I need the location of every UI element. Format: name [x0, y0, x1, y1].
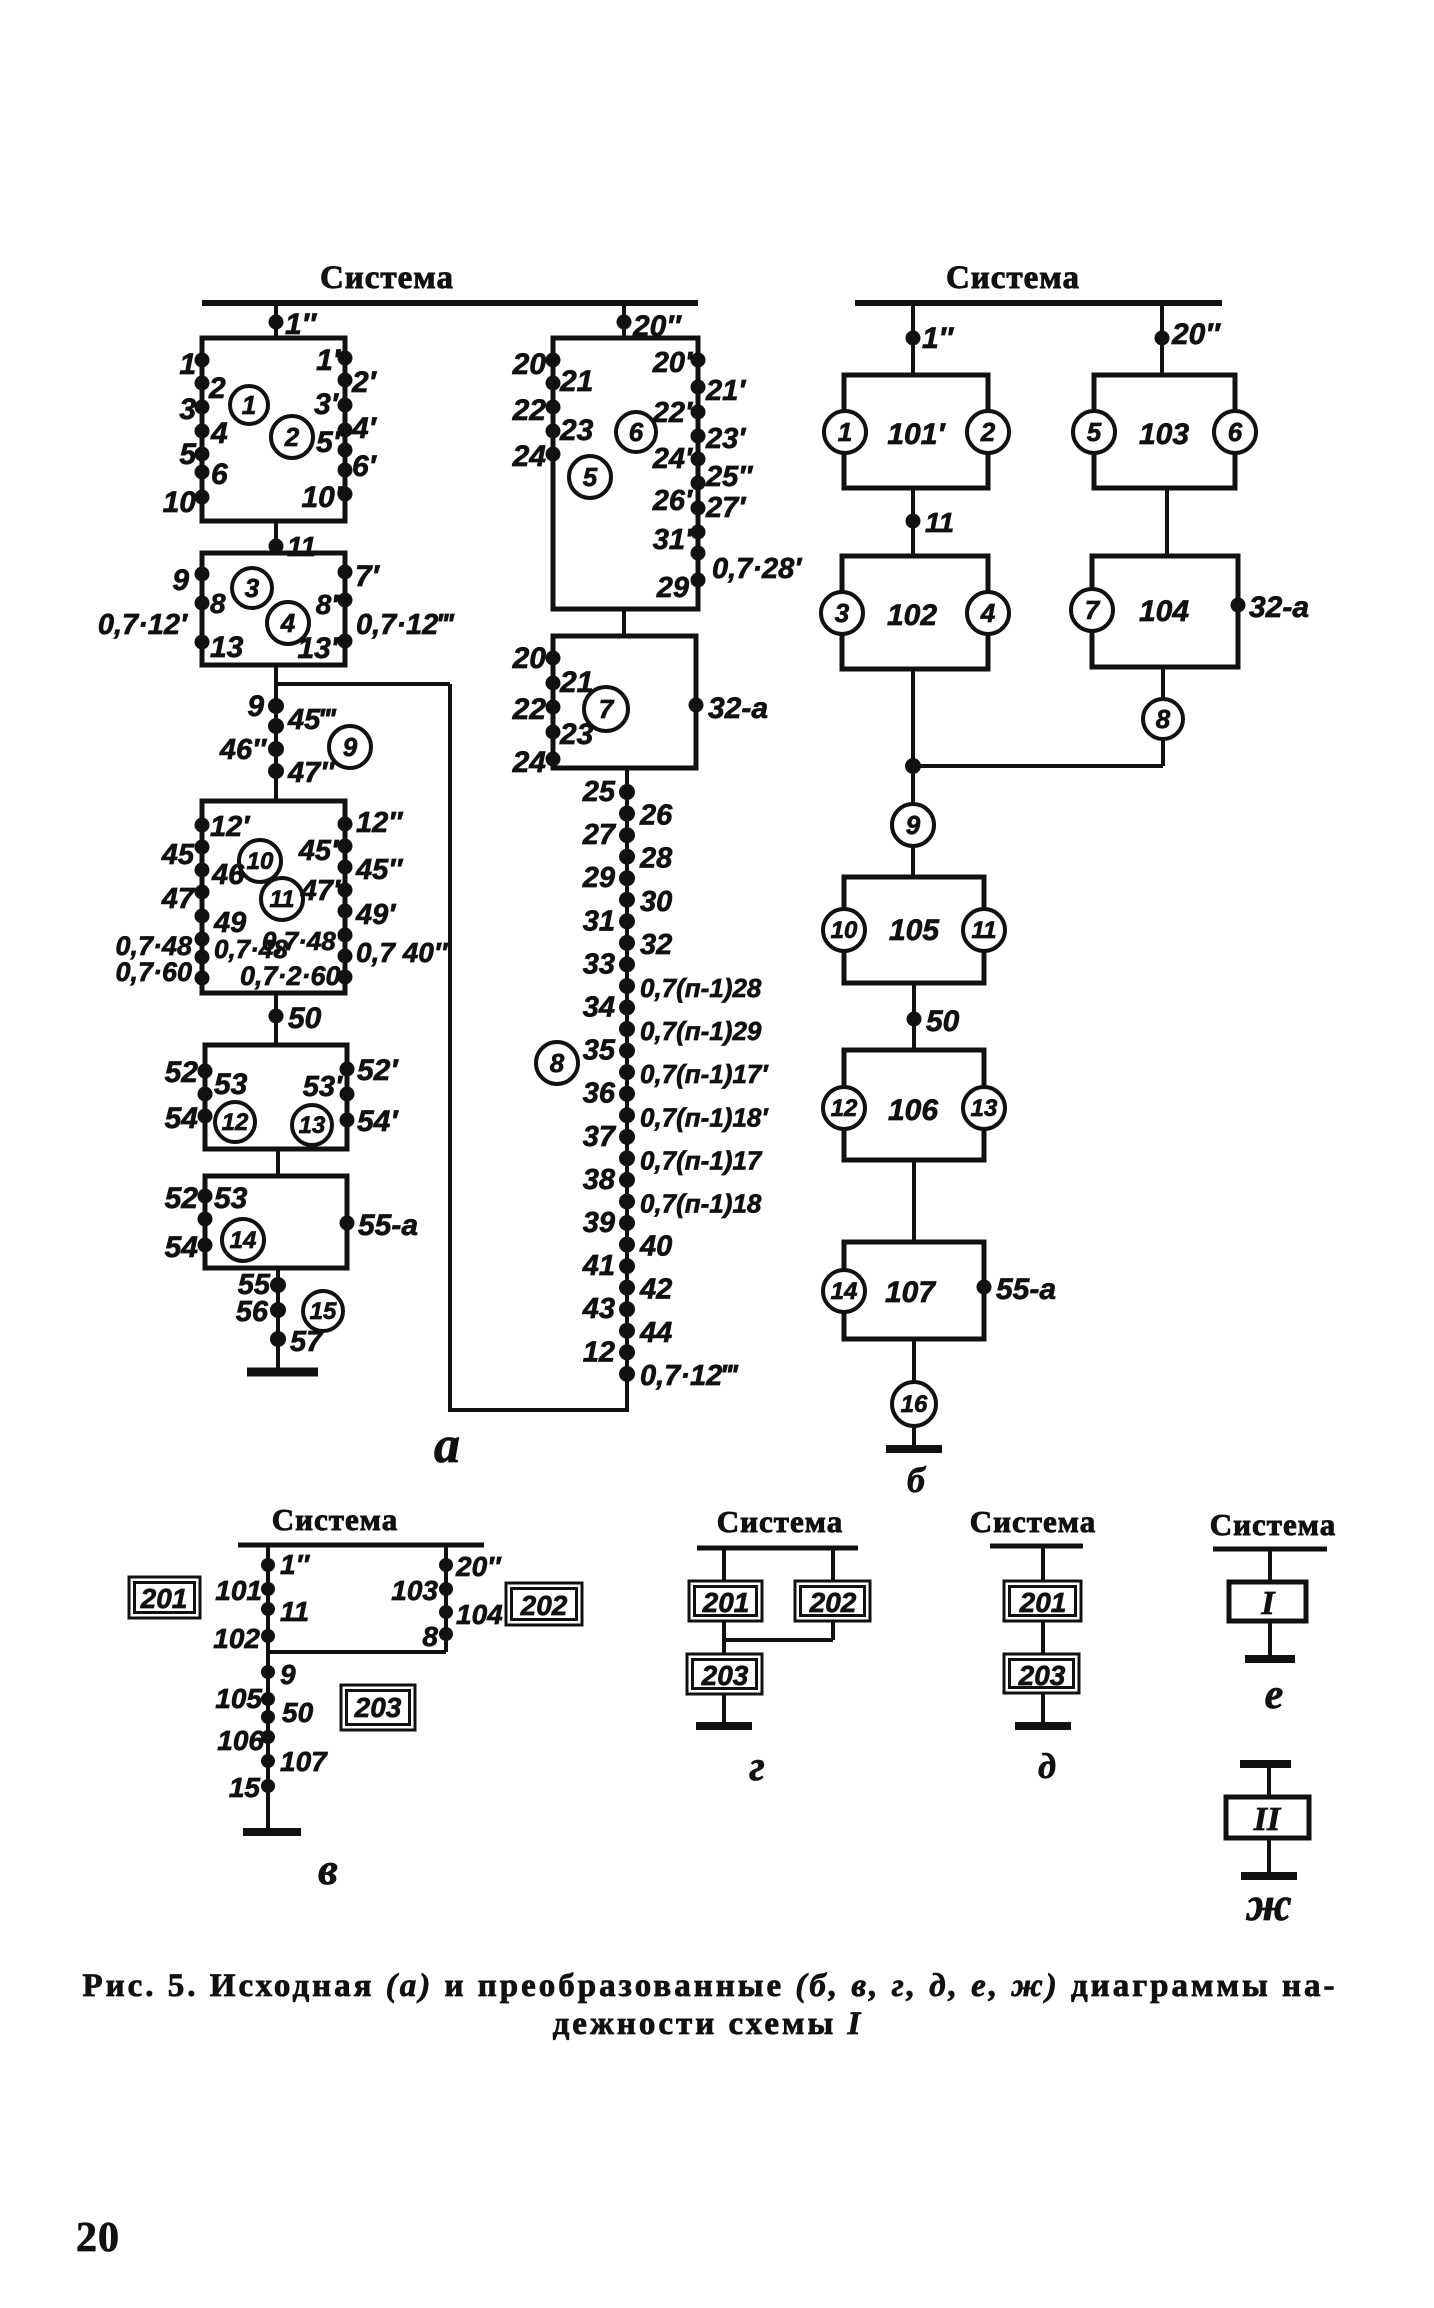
nodes on left edge of box 1-2: [195, 353, 210, 368]
element circle 7: [584, 687, 628, 731]
svg-text:46″: 46″: [219, 734, 267, 766]
element circle 14 on box 107: [823, 1270, 865, 1312]
svg-text:Система: Система: [946, 260, 1080, 296]
box 107: [844, 1242, 984, 1339]
ground of diagram g: [722, 1694, 726, 1726]
svg-text:5: 5: [1087, 417, 1102, 447]
svg-text:21: 21: [559, 365, 593, 398]
svg-text:0,7(п-1)18: 0,7(п-1)18: [640, 1188, 762, 1218]
svg-text:40: 40: [639, 1231, 672, 1263]
svg-text:12: 12: [583, 1336, 615, 1368]
svg-text:в: в: [318, 1845, 338, 1894]
svg-text:6: 6: [1228, 417, 1243, 447]
box 202 of diagram v: [506, 1583, 582, 1625]
svg-text:29′: 29′: [656, 572, 697, 604]
svg-text:104: 104: [456, 1599, 503, 1630]
svg-text:8′: 8′: [316, 589, 340, 620]
busbar: system bus of diagram b: [855, 300, 1222, 306]
element circle 2 on box 101: [967, 411, 1009, 453]
box 203 of diagram v: [341, 1685, 415, 1730]
svg-text:13: 13: [210, 631, 244, 664]
svg-text:0,7·12‴: 0,7·12‴: [640, 1360, 739, 1392]
svg-text:I: I: [1260, 1585, 1276, 1622]
box 106: [844, 1050, 984, 1160]
svg-text:4: 4: [280, 608, 296, 638]
svg-text:0,7·48′: 0,7·48′: [262, 926, 344, 956]
busbar of diagram v: [238, 1543, 484, 1548]
svg-text:52: 52: [165, 1182, 199, 1215]
element circle 5: [569, 456, 611, 498]
element circle 11 on box 105: [963, 909, 1005, 951]
nodes on left edge of box 7: [546, 651, 561, 666]
box containing elements 10 and 11: [202, 801, 345, 993]
wire between box 5-6 and box 7: [622, 609, 626, 636]
wire below box 104 to element 8: [1161, 667, 1165, 699]
svg-text:202: 202: [520, 1590, 568, 1621]
svg-text:1: 1: [838, 417, 852, 447]
svg-text:39: 39: [583, 1207, 615, 1239]
svg-text:31: 31: [583, 905, 615, 937]
element circle 12 on box 106: [823, 1087, 865, 1129]
nodes on left edge of box 10-11: [195, 818, 210, 833]
wire between boxes of d: [1041, 1621, 1045, 1654]
svg-text:7: 7: [1085, 595, 1101, 625]
svg-text:105: 105: [889, 914, 940, 947]
busbar: system bus of diagram a: [202, 300, 698, 306]
node 32-a on right edge of box 7: [689, 698, 704, 713]
svg-text:Система: Система: [320, 260, 454, 296]
svg-text:52′: 52′: [357, 1054, 399, 1087]
svg-text:104: 104: [1139, 595, 1189, 628]
wire drop to box 202 of g: [831, 1548, 835, 1581]
svg-text:23′: 23′: [705, 423, 746, 455]
svg-text:53′: 53′: [303, 1071, 343, 1103]
box 102: [842, 556, 988, 669]
nodes on right edge of box 3-4: [338, 565, 353, 580]
nodes on right edge of box 10-11: [338, 817, 353, 832]
node 20'' of diagram b: [1155, 331, 1170, 346]
svg-text:0,7·2·60: 0,7·2·60: [240, 961, 341, 991]
node 50 of diagram b: [907, 1012, 922, 1027]
svg-text:5: 5: [583, 462, 598, 492]
svg-text:13: 13: [971, 1095, 998, 1122]
node 11 of diagram b: [906, 514, 921, 529]
svg-text:4′: 4′: [351, 412, 378, 445]
box containing elements 5 and 6: [553, 338, 698, 609]
element circle 7 on box 104: [1071, 589, 1113, 631]
ground of diagram zh: [1267, 1838, 1271, 1876]
top bar of diagram zh: [1240, 1760, 1291, 1768]
nodes on left edge of box 5-6: [546, 353, 561, 368]
node 1'' on drop wire: [269, 315, 284, 330]
svg-text:56: 56: [236, 1296, 269, 1328]
svg-text:20: 20: [512, 348, 547, 381]
wire between box 10-11 and box 12-13: [274, 993, 278, 1045]
svg-text:41: 41: [582, 1250, 615, 1282]
wire: drop to box 103: [1160, 303, 1164, 375]
box II of diagram zh: [1226, 1797, 1309, 1838]
svg-text:10′: 10′: [301, 481, 343, 514]
svg-text:54′: 54′: [357, 1105, 399, 1138]
svg-text:12′: 12′: [210, 811, 250, 843]
busbar of diagram d: [990, 1544, 1083, 1549]
nodes on right edge of box 5-6: [691, 353, 706, 368]
svg-text:27: 27: [582, 819, 617, 851]
nodes on right edge of box 12-13: [340, 1062, 355, 1077]
svg-text:49′: 49′: [355, 899, 396, 931]
svg-text:11: 11: [280, 1596, 309, 1627]
wire between box 101 and box 102: [911, 488, 915, 556]
svg-text:32-a: 32-a: [708, 692, 768, 725]
node 50: [269, 1009, 284, 1024]
element circle 8 of diagram b: [1143, 699, 1183, 739]
svg-text:28: 28: [639, 843, 673, 875]
svg-text:106: 106: [888, 1094, 938, 1127]
svg-text:6: 6: [211, 458, 228, 491]
svg-text:43: 43: [582, 1293, 615, 1325]
box 203 of diagram d: [1004, 1654, 1079, 1693]
box 103: [1094, 375, 1235, 488]
svg-text:203: 203: [354, 1692, 402, 1723]
wire below box 202 joining left branch: [831, 1621, 835, 1640]
svg-text:11: 11: [270, 886, 295, 913]
element circle 6: [616, 412, 656, 452]
svg-text:12: 12: [831, 1095, 858, 1122]
svg-text:102: 102: [887, 599, 937, 632]
nodes on right chain: 20'',103,104,8: [439, 1558, 453, 1572]
svg-text:50: 50: [926, 1005, 960, 1038]
svg-text:4: 4: [980, 598, 996, 628]
svg-text:29: 29: [582, 862, 615, 894]
svg-text:53: 53: [214, 1182, 248, 1215]
nodes on right edge of box 1-2: [338, 351, 353, 366]
wire between box 106 and box 107: [912, 1160, 916, 1242]
wire: drop from bus to box 5-6: [622, 303, 626, 338]
svg-text:20″: 20″: [1171, 318, 1221, 351]
wire drop to box 201 of d: [1041, 1546, 1045, 1581]
ground of diagram v: [243, 1828, 301, 1836]
svg-text:16: 16: [901, 1391, 928, 1418]
svg-text:203: 203: [701, 1660, 749, 1691]
svg-text:203: 203: [1018, 1660, 1066, 1691]
svg-text:8: 8: [1156, 704, 1171, 734]
element circle 13: [292, 1105, 332, 1145]
svg-text:32-a: 32-a: [1249, 591, 1309, 624]
element circle 2: [271, 416, 313, 458]
svg-text:30: 30: [640, 886, 672, 918]
svg-text:107: 107: [280, 1746, 328, 1777]
svg-text:6: 6: [629, 417, 644, 447]
svg-text:22: 22: [512, 394, 547, 427]
svg-text:5: 5: [179, 438, 197, 471]
box 201 of diagram d: [1004, 1581, 1081, 1621]
svg-text:25″: 25″: [705, 461, 753, 493]
element circle 16: [892, 1382, 936, 1426]
svg-text:14: 14: [230, 1227, 257, 1254]
svg-text:3: 3: [835, 598, 850, 628]
box containing elements 12 and 13: [205, 1045, 347, 1149]
busbar of diagram g: [697, 1546, 858, 1551]
svg-text:36: 36: [583, 1078, 616, 1110]
nodes 9,45''',46'',47'' on wire below box 3-4: [268, 698, 284, 714]
svg-text:5′: 5′: [316, 426, 342, 459]
svg-text:Система: Система: [272, 1502, 398, 1537]
junction wire joining branches: [913, 764, 1163, 768]
svg-text:8: 8: [550, 1048, 565, 1078]
svg-text:2: 2: [980, 417, 996, 447]
element circle 3 on box 102: [821, 592, 863, 634]
svg-text:9: 9: [906, 810, 921, 840]
svg-text:3: 3: [179, 393, 196, 426]
svg-text:55-a: 55-a: [358, 1209, 418, 1242]
svg-text:12: 12: [222, 1109, 249, 1136]
svg-text:10: 10: [163, 486, 197, 519]
element circle 6 on box 103: [1214, 411, 1256, 453]
svg-text:20′: 20′: [652, 347, 693, 379]
svg-text:22′: 22′: [652, 397, 693, 429]
svg-text:9: 9: [247, 690, 264, 723]
nodes and labels of chain 8: [619, 784, 635, 800]
svg-text:54: 54: [165, 1102, 199, 1135]
svg-text:35: 35: [583, 1035, 616, 1067]
box I of diagram e: [1229, 1582, 1306, 1621]
svg-text:25: 25: [582, 776, 616, 808]
element circle 10 on box 105: [823, 909, 865, 951]
wire: drop from bus to box 1-2: [274, 303, 278, 338]
svg-text:11: 11: [972, 917, 997, 944]
svg-text:37: 37: [583, 1121, 617, 1153]
svg-text:11: 11: [287, 531, 316, 562]
svg-text:6′: 6′: [352, 450, 378, 483]
svg-text:0,7(п-1)18′: 0,7(п-1)18′: [640, 1102, 769, 1132]
svg-text:20: 20: [76, 2215, 120, 2261]
svg-text:31′: 31′: [653, 524, 693, 556]
svg-text:23: 23: [559, 718, 594, 751]
junction node: [905, 758, 921, 774]
box 202 of diagram g: [795, 1581, 870, 1621]
wire drop to box 201 of g: [722, 1548, 726, 1581]
svg-text:0,7·28′: 0,7·28′: [712, 553, 802, 585]
wire between box 105 and box 106: [912, 983, 916, 1050]
svg-text:50: 50: [288, 1002, 322, 1035]
wire between box 1-2 and box 3-4: [274, 521, 278, 553]
svg-text:9: 9: [172, 564, 189, 597]
ground of diagram d: [1041, 1693, 1045, 1726]
svg-text:б: б: [907, 1460, 927, 1500]
svg-text:Рис. 5. Исходная (а) и преобра: Рис. 5. Исходная (а) и преобразованные (…: [82, 1968, 1337, 2004]
chain of element 8: vertical wire: [625, 768, 629, 1412]
element circle 8: [536, 1042, 578, 1084]
ground of diagram e: [1268, 1621, 1272, 1659]
svg-text:0,7·12‴: 0,7·12‴: [356, 609, 455, 641]
svg-text:3′: 3′: [314, 388, 340, 421]
node 11: [269, 539, 284, 554]
wire from box 107 to element 16: [912, 1339, 916, 1382]
wire below box 3-4 to box 10-11: [274, 665, 278, 801]
svg-text:38: 38: [583, 1164, 616, 1196]
wire from element 9 to box 105: [911, 846, 915, 877]
svg-text:13: 13: [299, 1112, 326, 1139]
svg-text:11: 11: [925, 507, 954, 538]
svg-text:42: 42: [639, 1274, 672, 1306]
svg-text:201: 201: [1019, 1587, 1067, 1618]
svg-text:202: 202: [809, 1587, 857, 1618]
element circle 3: [232, 568, 272, 608]
element circle 13 on box 106: [963, 1087, 1005, 1129]
bypass wire: long vertical line: [448, 684, 452, 1412]
node 55-a on right edge of box 14: [340, 1216, 355, 1231]
svg-text:22: 22: [512, 693, 547, 726]
box containing element 14: [205, 1176, 347, 1268]
svg-text:0,7·60: 0,7·60: [115, 957, 192, 987]
element circle 15: [303, 1291, 343, 1331]
ground of diagram a: [247, 1368, 318, 1377]
svg-text:33: 33: [583, 948, 615, 980]
svg-text:7: 7: [599, 694, 615, 724]
svg-text:II: II: [1253, 1801, 1282, 1838]
svg-text:20″: 20″: [455, 1551, 502, 1582]
element circle 1 on box 101: [824, 411, 866, 453]
svg-text:54: 54: [165, 1231, 199, 1264]
wire between box 103 and box 104: [1165, 488, 1169, 556]
right chain wire of diagram v: [444, 1545, 448, 1652]
svg-text:3: 3: [245, 573, 260, 603]
svg-text:21′: 21′: [705, 375, 746, 407]
svg-text:55-a: 55-a: [996, 1273, 1056, 1306]
svg-text:2′: 2′: [351, 366, 378, 399]
svg-text:0,7(п-1)29: 0,7(п-1)29: [640, 1016, 762, 1046]
svg-text:8: 8: [210, 588, 226, 619]
svg-text:15: 15: [310, 1298, 337, 1325]
svg-text:106: 106: [217, 1725, 264, 1756]
left chain wire of diagram v: [266, 1545, 270, 1830]
svg-text:г: г: [749, 1744, 765, 1790]
box 203 of diagram g: [687, 1654, 762, 1694]
svg-text:4: 4: [210, 417, 228, 450]
svg-text:1: 1: [179, 348, 196, 381]
svg-text:103: 103: [1139, 418, 1189, 451]
wire below box 201 of g: [722, 1621, 726, 1654]
node 1'' of diagram b: [906, 331, 921, 346]
svg-text:47″: 47″: [287, 757, 335, 789]
svg-text:44: 44: [639, 1317, 672, 1349]
nodes on left edge of box 3-4: [195, 567, 210, 582]
svg-text:1″: 1″: [922, 322, 955, 355]
svg-text:ж: ж: [1245, 1878, 1292, 1931]
wire from top bar to box II: [1267, 1764, 1271, 1797]
node 55-a on right edge of box 107: [977, 1280, 992, 1295]
element circle 12: [215, 1102, 255, 1142]
svg-text:102: 102: [213, 1623, 260, 1654]
svg-text:9: 9: [343, 732, 358, 762]
svg-text:д: д: [1038, 1746, 1056, 1786]
svg-text:2: 2: [208, 372, 226, 405]
svg-text:26′: 26′: [652, 485, 693, 517]
nodes 55,56,57: [270, 1277, 286, 1293]
box 101': [844, 375, 988, 488]
box containing elements 3 and 4: [202, 553, 345, 665]
element circle 11: [261, 878, 303, 920]
svg-text:0,7(п-1)17: 0,7(п-1)17: [640, 1145, 763, 1175]
box 104: [1092, 556, 1238, 667]
svg-text:Система: Система: [970, 1504, 1096, 1539]
svg-text:45: 45: [161, 839, 195, 871]
ground of diagram b: [912, 1426, 916, 1449]
wire joining chains of diagram v: [268, 1650, 446, 1654]
svg-text:10: 10: [831, 917, 858, 944]
svg-text:1′: 1′: [316, 344, 342, 377]
svg-text:107: 107: [885, 1276, 936, 1309]
svg-text:50: 50: [282, 1697, 314, 1728]
svg-text:24: 24: [512, 746, 547, 779]
svg-text:20: 20: [512, 642, 547, 675]
svg-text:45″: 45″: [355, 854, 403, 886]
svg-text:23: 23: [559, 414, 594, 447]
svg-text:е: е: [1265, 1672, 1284, 1718]
wire below box 102 to junction: [911, 669, 915, 766]
svg-text:8: 8: [422, 1621, 438, 1652]
wire: drop to box 101: [911, 303, 915, 375]
wire drop to box I: [1268, 1549, 1272, 1582]
svg-text:15: 15: [229, 1772, 261, 1803]
svg-text:9: 9: [280, 1659, 296, 1690]
svg-text:101: 101: [215, 1575, 262, 1606]
wire from element 8 to junction: [1161, 739, 1165, 766]
svg-text:53: 53: [214, 1068, 248, 1101]
svg-text:0,7·12′: 0,7·12′: [98, 609, 188, 641]
wire: branch to bypass line: [276, 682, 450, 686]
svg-text:26: 26: [639, 800, 673, 832]
node 32-a on right edge of box 104: [1231, 598, 1246, 613]
svg-text:Система: Система: [717, 1504, 843, 1539]
node 20'' on drop wire: [617, 315, 632, 330]
box 201 of diagram g: [689, 1581, 762, 1621]
svg-text:дежности схемы I: дежности схемы I: [553, 2006, 864, 2042]
svg-text:12″: 12″: [356, 807, 403, 839]
svg-text:32: 32: [640, 929, 672, 961]
svg-text:47: 47: [161, 883, 196, 915]
svg-text:21: 21: [559, 666, 593, 699]
svg-text:103: 103: [391, 1575, 438, 1606]
element circle 10: [239, 840, 281, 882]
wire from junction to element 9: [911, 766, 915, 804]
svg-text:45‴: 45‴: [287, 704, 337, 736]
svg-text:24: 24: [512, 440, 547, 473]
svg-text:101′: 101′: [887, 418, 946, 451]
nodes on left edge of box 12-13: [198, 1064, 213, 1079]
nodes on left chain: [261, 1558, 275, 1572]
element circle 4 on box 102: [967, 592, 1009, 634]
svg-text:201: 201: [140, 1583, 188, 1614]
bypass wire: bottom horizontal to chain 8: [448, 1408, 629, 1412]
svg-text:201: 201: [702, 1587, 750, 1618]
element circle 9 of diagram a: [329, 726, 371, 768]
svg-text:34: 34: [583, 992, 615, 1024]
busbar of diagram e: [1213, 1547, 1327, 1552]
box containing element 7: [553, 636, 696, 768]
svg-text:7′: 7′: [355, 560, 381, 593]
svg-text:105: 105: [215, 1683, 262, 1714]
svg-text:0,7 40″: 0,7 40″: [356, 937, 449, 968]
svg-text:Система: Система: [1210, 1507, 1336, 1542]
element circle 14: [222, 1219, 264, 1261]
nodes on left edge of box 14: [198, 1189, 213, 1204]
svg-text:1: 1: [242, 390, 256, 420]
svg-text:46: 46: [211, 859, 245, 891]
svg-text:а: а: [434, 1417, 460, 1474]
element circle 4: [267, 602, 309, 644]
svg-text:0,7(п-1)17′: 0,7(п-1)17′: [640, 1059, 769, 1089]
